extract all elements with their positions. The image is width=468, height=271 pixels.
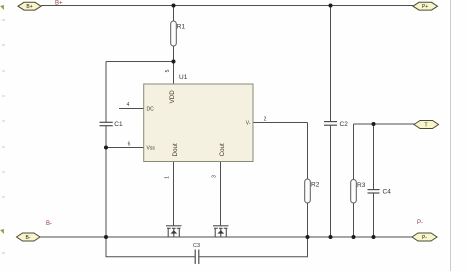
port T — [414, 121, 439, 129]
port P- — [412, 233, 437, 241]
wire C2 branch top — [330, 6, 332, 122]
node C2 rail junction — [329, 235, 333, 239]
wire top rail B+ — [41, 5, 413, 7]
svg-text:C1: C1 — [114, 121, 123, 128]
svg-text:R2: R2 — [311, 182, 320, 189]
svg-text:B-: B- — [26, 235, 31, 241]
svg-text:R1: R1 — [177, 24, 186, 31]
wire pin2 stub — [253, 122, 308, 124]
capacitor C1 — [100, 121, 123, 128]
node C4 T junction — [372, 122, 376, 126]
wire pin4 stub — [119, 108, 144, 110]
node R1 top junction — [172, 4, 176, 8]
wire C3 right return — [199, 237, 308, 257]
svg-text:B+: B+ — [26, 4, 32, 10]
wire R1 top — [173, 6, 175, 22]
capacitor C2 — [324, 121, 348, 128]
svg-text:T: T — [424, 123, 427, 129]
node C2 top junction — [329, 4, 333, 8]
svg-text:V-: V- — [246, 121, 251, 127]
wire pin1 to Q1 gate — [173, 162, 175, 226]
wire R3 branch top — [353, 124, 355, 180]
svg-text:U1: U1 — [179, 74, 188, 81]
svg-text:Vss: Vss — [147, 146, 156, 152]
port B+ — [18, 2, 41, 10]
svg-text:4: 4 — [127, 102, 130, 108]
port B- — [17, 233, 41, 241]
sheet border line — [450, 0, 452, 271]
svg-text:1: 1 — [165, 176, 171, 179]
node C4 rail junction — [372, 235, 376, 239]
svg-text:P-: P- — [417, 220, 423, 226]
svg-text:DC: DC — [147, 107, 155, 113]
svg-text:Dout: Dout — [172, 143, 179, 156]
wire C1 top — [105, 62, 107, 123]
wire pin6 stub — [106, 147, 144, 149]
svg-text:R3: R3 — [357, 182, 366, 189]
node B- C1 junction — [104, 235, 108, 239]
svg-text:P+: P+ — [422, 4, 428, 10]
node pin6 junction — [104, 146, 108, 150]
resistor R2 — [305, 179, 320, 203]
port P+ — [413, 2, 438, 10]
node R3 rail junction — [352, 235, 356, 239]
svg-text:2: 2 — [264, 117, 267, 123]
svg-text:C3: C3 — [193, 243, 200, 249]
wire C2 branch bottom — [330, 125, 332, 237]
transistor Q1 — [166, 226, 182, 237]
wire R3 branch bottom — [353, 203, 355, 237]
resistor R3 — [351, 180, 366, 204]
wire R1 bottom to pin5 — [173, 46, 175, 84]
wire node to C1 branch — [106, 61, 174, 63]
wire C3 left drop — [106, 237, 195, 257]
wire pin3 to Q2 gate — [220, 162, 222, 226]
svg-text:B+: B+ — [55, 1, 63, 7]
svg-text:3: 3 — [212, 175, 218, 178]
svg-text:Cout: Cout — [219, 143, 226, 156]
op-amp U1 body — [144, 74, 253, 162]
wire C1 bottom down to B- rail — [105, 126, 107, 237]
svg-text:5: 5 — [165, 69, 171, 72]
capacitor C4 — [368, 189, 392, 196]
svg-text:B-: B- — [46, 221, 52, 227]
wire T net horizontal — [354, 123, 415, 125]
svg-text:C4: C4 — [383, 189, 392, 196]
wire C4 branch top — [373, 124, 375, 190]
node R1 bottom junction — [172, 60, 176, 64]
wire R2 branch top — [307, 123, 309, 180]
svg-text:VDD: VDD — [169, 90, 176, 104]
capacitor C3 — [193, 243, 200, 264]
resistor R1 — [171, 21, 186, 46]
wire B- rail — [40, 236, 412, 238]
wire R2 branch bottom — [307, 203, 309, 237]
edge tick marks — [0, 5, 5, 254]
wire C4 branch bottom — [373, 193, 375, 237]
svg-text:6: 6 — [128, 142, 131, 148]
svg-text:P-: P- — [422, 235, 427, 241]
svg-text:C2: C2 — [340, 121, 349, 128]
transistor Q2 — [213, 226, 229, 237]
node R2 rail junction — [306, 235, 310, 239]
